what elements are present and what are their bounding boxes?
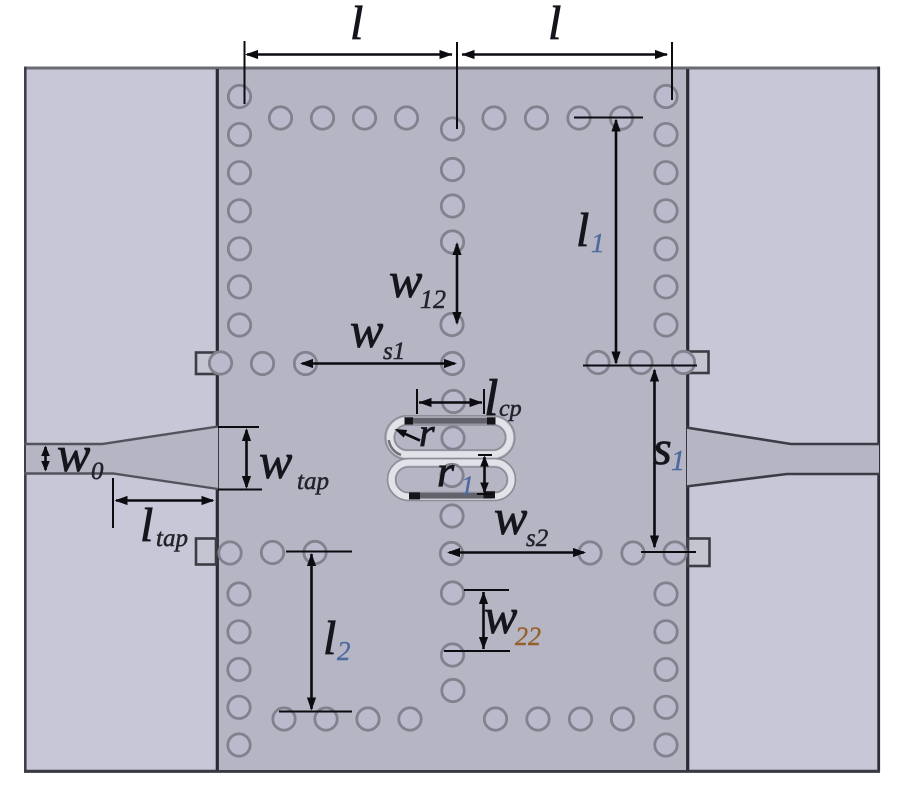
via fence right column bottom: [655, 583, 677, 756]
svg-text:2: 2: [337, 636, 351, 666]
dimension ws2: [447, 489, 586, 557]
svg-text:s2: s2: [526, 525, 548, 552]
svg-text:w: w: [484, 588, 517, 644]
svg-text:tap: tap: [297, 468, 329, 495]
svg-text:r: r: [437, 447, 455, 496]
via center column: [440, 118, 464, 702]
dimension l (left half): [245, 0, 458, 129]
dimension w0: [41, 426, 104, 485]
via row middle-upper left: [209, 352, 316, 375]
svg-text:l: l: [484, 370, 498, 427]
left feed taper: [24, 427, 218, 490]
svg-text:s1: s1: [383, 338, 405, 365]
via fence right column top: [655, 85, 677, 336]
via fence top row: [269, 107, 632, 129]
svg-text:l: l: [548, 0, 561, 50]
dimension ltap: [113, 478, 215, 552]
svg-text:w: w: [389, 252, 422, 308]
dimension w12: [389, 242, 462, 325]
svg-text:1: 1: [461, 471, 474, 500]
dimension r1: [437, 447, 492, 500]
dimension r (leader arrow): [395, 410, 436, 455]
svg-text:1: 1: [671, 446, 685, 477]
dimension lcp: [417, 370, 522, 427]
svg-text:l: l: [350, 0, 363, 50]
dimension w22: [444, 588, 541, 651]
svg-text:cp: cp: [499, 396, 522, 422]
svg-text:w: w: [57, 426, 90, 482]
slot resonator ring 1 (upper stadium): [385, 416, 515, 460]
svg-text:l: l: [140, 499, 153, 552]
svg-text:s: s: [653, 422, 672, 475]
svg-text:0: 0: [91, 458, 104, 485]
coupling notch right-bottom: [688, 539, 710, 567]
svg-text:w: w: [350, 302, 383, 358]
svg-text:12: 12: [420, 285, 446, 314]
coupling notch right-top: [688, 352, 709, 374]
coupling notch left-top: [196, 353, 216, 375]
svg-text:l: l: [576, 204, 589, 257]
via fence left column top: [228, 85, 250, 336]
via fence bottom row: [273, 708, 634, 730]
svg-text:r: r: [419, 410, 435, 455]
dimension l1: [574, 118, 697, 366]
svg-text:l: l: [323, 612, 336, 665]
via fence left column bottom: [228, 583, 250, 756]
dimension ws1: [300, 302, 457, 368]
via row middle-upper right: [587, 351, 695, 373]
via row middle-lower left: [219, 541, 326, 564]
via row middle-lower right: [579, 542, 686, 564]
svg-text:1: 1: [591, 228, 605, 258]
right feed taper: [686, 428, 880, 487]
svg-text:w: w: [259, 433, 292, 489]
svg-text:tap: tap: [156, 525, 188, 552]
svg-text:w: w: [494, 489, 527, 545]
dimension s1: [641, 369, 696, 553]
coupling notch left-bottom: [196, 539, 216, 565]
svg-text:22: 22: [515, 622, 541, 651]
slot resonator ring 2 (lower stadium): [388, 459, 516, 501]
dimension l (right half): [462, 0, 673, 100]
dimension l2: [279, 552, 352, 712]
SIW cavity region: [217, 69, 688, 771]
dimension wtap: [218, 427, 329, 495]
